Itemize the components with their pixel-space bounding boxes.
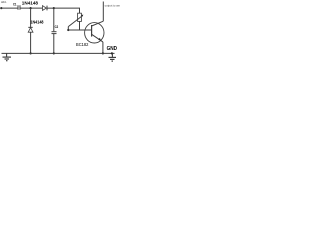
svg-text:AERIAL: AERIAL: [1, 0, 7, 4]
wire collector up: [102, 2, 104, 22]
terminal dot antenna input: [0, 7, 2, 9]
svg-text:C1: C1: [13, 3, 17, 7]
node junction dot: [30, 7, 32, 9]
capacitor C1: [13, 3, 20, 10]
wire top rail to trimmer: [54, 8, 80, 13]
diode D1 1N4148 (cathode up): [28, 27, 33, 32]
junction dot: [111, 52, 113, 54]
wire: [30, 8, 32, 27]
wire: [1, 7, 18, 9]
capacitor C2: [52, 25, 59, 34]
svg-text:GND: GND: [107, 46, 117, 52]
svg-text:C2: C2: [55, 25, 59, 29]
transistor Q1 BC182: [85, 21, 104, 43]
diode D2 (horizontal, cathode right): [43, 6, 48, 11]
ground left: [3, 53, 12, 60]
wire emitter down: [102, 42, 104, 54]
junction dot: [53, 7, 55, 9]
junction dot: [67, 29, 69, 31]
svg-text:1N4148: 1N4148: [22, 0, 39, 5]
trimmer resistor R1: [68, 13, 83, 26]
svg-text:1N4148: 1N4148: [30, 20, 44, 25]
wire wiper tail: [67, 27, 69, 30]
junction dot: [53, 52, 55, 54]
junction dot: [30, 52, 32, 54]
wire bottom bus: [2, 52, 115, 54]
ground right: [109, 53, 117, 61]
wire: [20, 7, 42, 9]
wire pot bottom lead: [79, 21, 81, 30]
wire: [30, 32, 32, 53]
wire: [53, 34, 55, 54]
wire: [53, 8, 55, 31]
wire base: [68, 29, 91, 31]
wire: [47, 7, 54, 9]
junction dot: [102, 52, 104, 54]
svg-text:output to amp: output to amp: [105, 3, 120, 7]
svg-text:BC182: BC182: [76, 42, 89, 47]
